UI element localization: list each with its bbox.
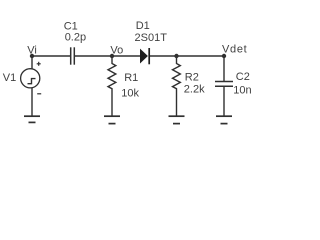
resistor R2 xyxy=(173,56,181,116)
wire: Vi down to V1 xyxy=(31,56,33,69)
svg-text:R2: R2 xyxy=(185,72,199,84)
svg-text:Vdet: Vdet xyxy=(222,43,247,55)
svg-text:Vi: Vi xyxy=(27,45,37,57)
wire: rail C1 right plate to D1 anode xyxy=(75,55,140,57)
svg-text:C2: C2 xyxy=(236,71,250,83)
svg-text:2.2k: 2.2k xyxy=(184,83,205,95)
wire: rail Vi to C1 left plate xyxy=(32,55,70,57)
node at R2 xyxy=(174,54,178,58)
svg-text:0.2p: 0.2p xyxy=(65,32,86,44)
wire: Vdet down to C2 xyxy=(223,56,225,81)
node Vi xyxy=(30,54,34,58)
capacitor C1 xyxy=(71,47,75,64)
svg-text:10k: 10k xyxy=(121,88,139,100)
minus sign xyxy=(37,93,41,95)
node Vo xyxy=(110,54,114,58)
wire: C2 down to ground xyxy=(223,86,225,116)
wire: rail D1 cathode to Vdet xyxy=(150,55,224,57)
svg-text:V1: V1 xyxy=(3,72,16,84)
svg-text:D1: D1 xyxy=(136,20,150,32)
ground under R2 xyxy=(169,116,185,123)
node Vdet xyxy=(222,54,226,58)
capacitor C2 xyxy=(215,82,233,87)
wire: V1 down to ground xyxy=(31,88,33,116)
svg-text:2S01T: 2S01T xyxy=(135,32,168,44)
ground under V1 xyxy=(24,116,40,122)
ground under R1 xyxy=(104,116,120,123)
ground under C2 xyxy=(216,116,232,123)
svg-text:R1: R1 xyxy=(124,72,138,84)
resistor R1 xyxy=(108,56,116,116)
plus sign xyxy=(37,62,41,66)
diode D1 xyxy=(140,49,148,64)
svg-text:Vo: Vo xyxy=(110,45,123,57)
voltage source V1 xyxy=(21,69,40,88)
svg-text:10n: 10n xyxy=(233,84,251,96)
